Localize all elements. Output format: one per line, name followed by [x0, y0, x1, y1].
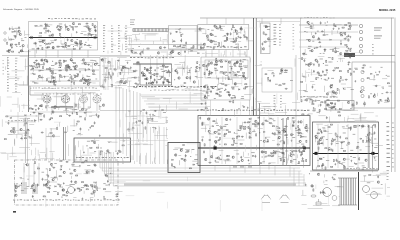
- label left parts list: [7, 67, 9, 70]
- resistor R403: [50, 133, 52, 134]
- ground: [43, 27, 45, 29]
- diode D114: [60, 70, 62, 71]
- wire horizontal y112: [30, 111, 100, 113]
- capacitor C153: [119, 81, 121, 84]
- capacitor C109: [88, 27, 90, 30]
- junction: [253, 129, 256, 132]
- resistor R288: [339, 115, 341, 116]
- label IF upper: [58, 69, 60, 72]
- label RF lower: [75, 41, 77, 44]
- label AM: [179, 31, 181, 34]
- label aux note: [293, 39, 295, 42]
- label AM IF value: [230, 46, 232, 49]
- diode D121: [137, 84, 139, 85]
- wire: [219, 150, 224, 152]
- label output parts: [387, 143, 390, 146]
- wire: [341, 141, 343, 148]
- label tone lower: [206, 92, 209, 95]
- capacitor C208: [285, 88, 288, 90]
- label IF lower: [87, 75, 90, 78]
- wire: [21, 134, 23, 140]
- transistor Q181: [281, 69, 283, 71]
- label MPX: [163, 66, 165, 69]
- wire: [287, 154, 289, 160]
- label power amp L upper: [219, 143, 221, 146]
- wire: [87, 35, 92, 37]
- capacitor C131: [87, 64, 90, 66]
- label RF lower: [57, 45, 60, 48]
- diode D127: [54, 108, 56, 109]
- wire: [351, 104, 355, 106]
- label MPX label: [130, 56, 132, 59]
- diode D140: [220, 91, 222, 92]
- label protection: [317, 99, 320, 102]
- capacitor C255: [291, 151, 294, 153]
- wire: [11, 127, 15, 129]
- label RF lower: [85, 41, 87, 44]
- label left margin note: [3, 73, 5, 76]
- transistor Q175: [228, 61, 230, 63]
- capacitor C249: [258, 123, 260, 126]
- diode D164: [281, 148, 283, 149]
- resistor R139: [73, 63, 75, 64]
- label IF value row: [51, 87, 53, 90]
- label protection label 2: [323, 96, 325, 99]
- wire: [361, 125, 363, 128]
- label MPX label: [169, 56, 170, 59]
- wire: [50, 77, 52, 82]
- diode D141: [216, 93, 218, 94]
- wire: [310, 32, 312, 35]
- wire y55 right: [352, 55, 395, 57]
- resistor R337: [300, 135, 301, 137]
- junction: [54, 72, 57, 75]
- label dial: [130, 19, 135, 22]
- capacitor C272: [367, 125, 369, 128]
- resistor R346: [295, 151, 297, 152]
- label switch wiring: [89, 115, 92, 118]
- capacitor C132: [46, 60, 48, 63]
- capacitor C284: [97, 115, 99, 118]
- resistor R341: [299, 133, 301, 134]
- wire MPX top bus: [133, 63, 172, 65]
- label aux note: [293, 45, 295, 48]
- label left parts list values: [15, 74, 17, 77]
- label power amp R lower: [339, 162, 342, 165]
- ground: [351, 160, 353, 162]
- label tone upper: [207, 76, 211, 79]
- capacitor C292: [146, 111, 148, 114]
- wire: [222, 76, 224, 82]
- wire: [238, 139, 245, 141]
- wire: [126, 80, 131, 82]
- resistor R344: [275, 151, 277, 152]
- label protection label: [323, 96, 325, 99]
- junction: [214, 142, 217, 145]
- resistor R215: [265, 26, 266, 28]
- wire: [382, 78, 387, 80]
- junction: [82, 108, 85, 111]
- label switch position: [274, 26, 277, 29]
- wire: [23, 119, 25, 122]
- label protection label 2: [314, 95, 315, 98]
- resistor R133: [43, 66, 44, 68]
- diode D144: [326, 69, 328, 70]
- wire: [310, 80, 314, 82]
- wire IF inner bus 2: [30, 80, 99, 82]
- resistor R196: [224, 41, 226, 42]
- label AM IF value: [234, 46, 237, 49]
- capacitor C225: [387, 97, 389, 100]
- capacitor C240: [298, 132, 300, 135]
- capacitor C191: [229, 72, 232, 74]
- label tuning parts 2: [111, 43, 113, 46]
- label output parts 2: [392, 135, 394, 138]
- wire: [350, 23, 352, 29]
- label RF: [84, 34, 87, 37]
- transistor Q191: [387, 100, 389, 102]
- resistor R183: [149, 72, 151, 73]
- diode D185: [143, 109, 145, 110]
- transistor Q199: [278, 136, 280, 138]
- label IF upper: [90, 59, 93, 62]
- wire: [50, 40, 56, 42]
- wire: [65, 45, 71, 47]
- transistor Q198: [262, 123, 264, 125]
- label right margin note: [372, 49, 374, 52]
- wire: [318, 148, 320, 153]
- label power amp value: [301, 109, 303, 112]
- label left parts list values: [15, 90, 17, 93]
- label power amp L upper: [301, 135, 304, 138]
- wire B+ vertical bus 2: [255, 18, 257, 116]
- label power amp L lower: [265, 155, 268, 158]
- label output parts 2: [392, 161, 394, 164]
- label power amp L upper: [225, 123, 229, 126]
- label power amp value: [206, 109, 209, 112]
- capacitor C222: [312, 86, 314, 89]
- label tuning parts 4: [125, 32, 127, 35]
- capacitor C190: [239, 66, 242, 68]
- resistor R199: [236, 38, 237, 40]
- wire: [229, 38, 235, 40]
- label power amp value: [293, 109, 296, 112]
- label bottom value: [171, 86, 173, 87]
- capacitor C265: [336, 136, 339, 138]
- label antenna input: [24, 36, 26, 39]
- diode D102: [46, 24, 48, 25]
- capacitor C213: [322, 70, 324, 73]
- label bottom value 2: [150, 89, 152, 92]
- resistor R158: [50, 82, 52, 83]
- transistor Q218: [210, 156, 212, 158]
- capacitor C228: [320, 104, 322, 107]
- label IF value row: [95, 87, 97, 90]
- label tone upper: [234, 65, 236, 68]
- capacitor C274: [321, 164, 324, 166]
- label output stage L: [292, 136, 295, 139]
- capacitor C283: [27, 129, 30, 131]
- capacitor C116: [76, 43, 79, 45]
- resistor R320: [278, 132, 280, 133]
- connector block: [344, 53, 355, 57]
- label tuning parts: [103, 24, 105, 27]
- ground: [295, 127, 297, 129]
- wire: [29, 123, 34, 125]
- wire: [24, 31, 26, 36]
- label driver: [316, 76, 319, 79]
- label antenna input: [21, 38, 23, 41]
- capacitor C157: [156, 81, 158, 84]
- label bottom value: [207, 86, 209, 87]
- label AM IF value: [213, 46, 216, 49]
- label IF lower: [72, 79, 76, 82]
- resistor R352: [273, 152, 275, 153]
- wire: [173, 148, 178, 150]
- label power amp R lower: [353, 156, 356, 159]
- resistor R193: [181, 34, 182, 36]
- label RF: [80, 32, 83, 35]
- diode D148: [377, 74, 379, 75]
- label protection label 2: [316, 95, 318, 98]
- wire: [264, 40, 266, 43]
- label power amp value: [212, 109, 214, 112]
- transistor Q202: [225, 118, 227, 120]
- label bottom value: [187, 87, 188, 88]
- junction: [87, 128, 90, 131]
- resistor R313: [243, 128, 245, 129]
- label driver: [334, 67, 336, 70]
- label bottom value: [175, 86, 177, 87]
- label antenna input: [23, 50, 25, 53]
- diode D158: [209, 139, 211, 140]
- transistor Q113: [22, 45, 24, 47]
- resistor R355: [265, 151, 266, 153]
- ground: [60, 36, 62, 38]
- junction: [25, 121, 28, 124]
- wire wafer separator: [74, 92, 76, 108]
- label driver right: [381, 66, 383, 69]
- resistor R236: [239, 63, 241, 64]
- label power amp R lower: [350, 155, 352, 158]
- label protection label: [303, 95, 305, 98]
- diode D163: [220, 159, 222, 160]
- capacitor C207: [284, 70, 287, 72]
- resistor R104: [73, 28, 74, 30]
- wire: [373, 75, 375, 81]
- label protection label: [319, 95, 321, 98]
- label power amp L upper: [215, 136, 218, 139]
- label power amp value: [236, 109, 238, 112]
- wire: [82, 75, 84, 82]
- transistor Q239: [13, 131, 15, 133]
- label IF value row: [35, 87, 36, 90]
- wire: [147, 119, 154, 121]
- capacitor C167: [222, 45, 225, 47]
- label output parts: [387, 165, 391, 168]
- capacitor C194: [215, 64, 218, 66]
- label tone upper: [244, 77, 247, 80]
- transistor Q153: [210, 41, 212, 43]
- wire: [276, 133, 282, 135]
- label meter amp: [330, 48, 332, 51]
- resistor R260: [279, 85, 281, 86]
- label meter amp: [308, 45, 312, 48]
- wire: [128, 81, 130, 86]
- capacitor C170: [239, 37, 242, 39]
- label power amp L upper: [261, 123, 264, 126]
- label driver: [331, 77, 334, 80]
- capacitor C193: [211, 72, 213, 75]
- connector pin: [361, 86, 364, 89]
- transistor Q214: [205, 158, 207, 160]
- wire: [233, 142, 237, 144]
- label tuning parts 3: [118, 40, 120, 43]
- resistor R250: [207, 91, 208, 93]
- resistor R120: [47, 47, 49, 48]
- wire: [244, 94, 251, 96]
- wire: [331, 30, 333, 35]
- junction: [258, 131, 261, 134]
- label aux note: [293, 35, 294, 38]
- resistor R345: [306, 159, 307, 161]
- label left parts list: [7, 81, 9, 84]
- label power amp R upper: [371, 126, 373, 129]
- wire: [236, 43, 239, 45]
- label IF lower: [35, 82, 38, 85]
- resistor R190: [46, 106, 47, 108]
- ground: [18, 51, 20, 53]
- label left parts list: [7, 62, 9, 65]
- AM IF box: [198, 25, 249, 50]
- capacitor C244: [305, 130, 308, 132]
- label wafer label: [96, 93, 98, 96]
- transistor Q143: [147, 69, 149, 71]
- wire vertical x300: [300, 18, 302, 95]
- label IF upper: [41, 69, 44, 72]
- transistor Q128: [87, 83, 89, 85]
- capacitor C154: [123, 67, 126, 69]
- transistor Q231: [368, 139, 370, 141]
- filter box: [262, 68, 292, 92]
- capacitor C107: [95, 29, 97, 32]
- capacitor C166: [210, 40, 213, 42]
- junction: [15, 45, 18, 48]
- transistor Q201: [208, 130, 210, 132]
- resistor R399: [6, 116, 8, 117]
- ground: [14, 30, 16, 32]
- transistor Q130: [51, 72, 53, 74]
- capacitor C142: [67, 79, 70, 81]
- resistor R232: [237, 71, 239, 72]
- power driver box: [352, 62, 395, 108]
- resistor R114: [42, 48, 43, 50]
- resistor R184: [145, 79, 147, 80]
- label driver: [325, 79, 328, 82]
- label AM IF value: [237, 46, 238, 49]
- junction: [215, 156, 218, 159]
- label wafer label: [88, 92, 90, 95]
- wire v108: [107, 57, 109, 90]
- capacitor C267: [320, 130, 322, 133]
- capacitor C263: [298, 120, 300, 123]
- wire: [70, 84, 72, 90]
- label MPX label: [141, 56, 143, 59]
- capacitor C114: [67, 38, 69, 41]
- label IF upper: [30, 68, 32, 71]
- capacitor C260: [203, 150, 205, 153]
- resistor R226: [345, 25, 347, 26]
- capacitor C262: [298, 128, 301, 130]
- label tone lower: [205, 84, 208, 87]
- label tone upper: [220, 58, 222, 61]
- ground: [155, 127, 157, 129]
- capacitor C120: [11, 46, 13, 49]
- wire B+ vertical bus: [253, 18, 255, 116]
- resistor R211: [232, 25, 233, 27]
- resistor R163: [105, 79, 106, 81]
- ground: [95, 30, 97, 32]
- transistor Q111: [42, 40, 44, 42]
- capacitor C180: [318, 41, 321, 43]
- capacitor C182: [344, 38, 347, 40]
- label IF upper: [83, 61, 86, 64]
- label tone upper: [245, 65, 248, 68]
- label top right note: [313, 16, 315, 19]
- junction: [167, 65, 170, 68]
- wire: [248, 124, 250, 130]
- wire: [17, 30, 19, 34]
- transistor Q115: [8, 50, 10, 52]
- resistor R401: [50, 118, 52, 119]
- resistor R200: [220, 26, 221, 28]
- label switch position: [274, 38, 277, 41]
- junction: [320, 77, 323, 80]
- wire horizontal y110: [100, 110, 198, 112]
- label wafer label: [53, 93, 54, 96]
- resistor R167: [112, 73, 113, 75]
- resistor R159: [74, 82, 75, 84]
- wire: [81, 60, 84, 62]
- junction: [49, 30, 52, 33]
- wire v112: [111, 58, 113, 88]
- transistor Q133: [82, 78, 84, 80]
- label driver: [326, 72, 328, 75]
- transistor Q131: [84, 79, 86, 81]
- resistor R207: [241, 27, 242, 29]
- wire: [304, 49, 306, 54]
- transistor Q114: [20, 50, 22, 52]
- capacitor C223: [379, 99, 382, 101]
- diode D160: [260, 162, 262, 163]
- label power amp L upper: [286, 136, 288, 139]
- label tuning parts 2: [111, 35, 112, 38]
- diode D175: [27, 129, 29, 130]
- transistor Q211: [214, 140, 216, 142]
- label dial 3: [130, 23, 135, 26]
- capacitor C140: [41, 77, 44, 79]
- resistor R397: [4, 139, 6, 140]
- label aux note: [293, 23, 295, 26]
- wire: [254, 124, 256, 127]
- label coupling: [109, 68, 112, 71]
- label wafer label: [65, 93, 68, 96]
- capacitor C270: [374, 131, 376, 134]
- rotary switch wafer S1-1 contacts: [43, 96, 50, 103]
- capacitor C288: [80, 128, 82, 131]
- diode D138: [241, 68, 243, 69]
- ground: [350, 36, 352, 38]
